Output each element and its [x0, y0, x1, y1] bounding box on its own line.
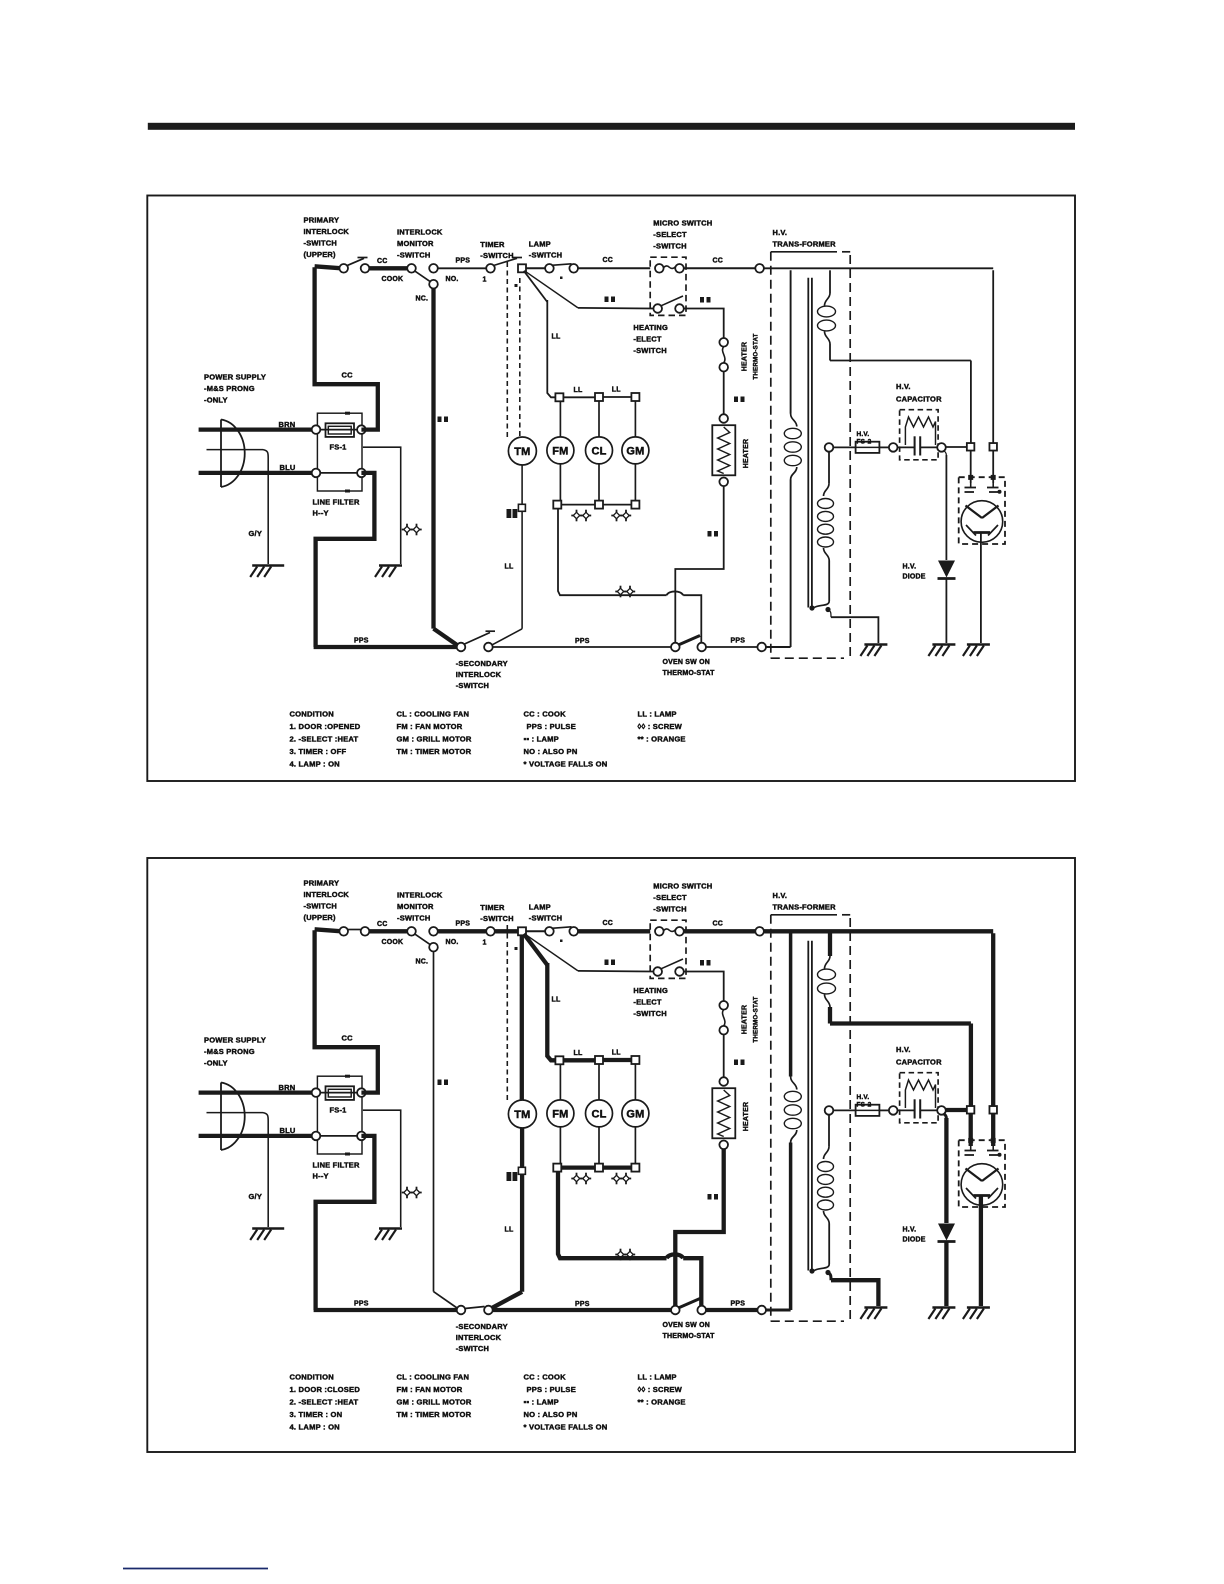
heater thermostat blade	[722, 1010, 724, 1026]
svg-text:GM : GRILL MOTOR: GM : GRILL MOTOR	[397, 1398, 472, 1407]
svg-text:CC: CC	[603, 920, 614, 927]
HV capacitor	[897, 1099, 937, 1118]
label HEATING ELECT SWITCH	[633, 986, 668, 1018]
motor bus node GM	[631, 393, 639, 401]
HV capacitor box	[900, 1073, 939, 1123]
svg-text:CL : COOLING FAN: CL : COOLING FAN	[397, 710, 470, 719]
lamp switch blade	[552, 264, 572, 266]
figure 1 frame	[147, 196, 1075, 782]
svg-text:CC: CC	[342, 1034, 354, 1043]
label G/Y	[249, 1192, 263, 1201]
svg-text:BRN: BRN	[279, 420, 296, 429]
lamp switch contact A	[545, 927, 554, 936]
svg-text:INTERLOCK: INTERLOCK	[397, 891, 443, 900]
node filter neutral-right	[357, 1132, 366, 1141]
oven thermostat contact B	[697, 643, 706, 652]
wire diode	[944, 1114, 947, 1224]
label CC 2	[603, 920, 614, 927]
wire GM bottom	[634, 1127, 636, 1164]
svg-text:1: 1	[483, 940, 487, 947]
label NC.	[416, 959, 429, 966]
svg-text:BRN: BRN	[279, 1083, 296, 1092]
svg-text:NC.: NC.	[416, 959, 429, 966]
svg-text:H.V.: H.V.	[857, 431, 870, 438]
wire monitor to timer switch	[438, 267, 487, 269]
wire main to magnetron FA	[992, 270, 994, 443]
heater bottom node	[719, 478, 728, 487]
wire FM top	[559, 1064, 561, 1100]
HV transformer box	[771, 252, 850, 658]
svg-text:4. LAMP : ON: 4. LAMP : ON	[290, 760, 340, 769]
svg-text:2. -SELECT :HEAT: 2. -SELECT :HEAT	[290, 735, 359, 744]
heater thermostat contact B	[719, 363, 728, 372]
label marks bus 2	[611, 510, 631, 522]
lamp switch contact B	[569, 264, 578, 273]
svg-text:PPS: PPS	[731, 638, 746, 645]
primary interlock blade open	[347, 258, 368, 266]
wire micro to heater branch	[684, 972, 724, 1002]
label MICRO SWITCH SELECT	[653, 882, 712, 914]
svg-text:FS-1: FS-1	[330, 443, 347, 452]
svg-text:NC.: NC.	[416, 296, 429, 303]
wire to HV fuse	[833, 1109, 855, 1111]
interlock monitor common	[407, 264, 416, 273]
legend symbols column	[638, 710, 686, 744]
svg-text:-SECONDARY: -SECONDARY	[456, 659, 508, 668]
wire FM top	[559, 401, 561, 437]
wire TM direct feed	[520, 935, 524, 1100]
secondary interlock blade closed	[465, 1307, 485, 1309]
wire heating element line	[578, 307, 654, 310]
svg-text:LINE FILTER: LINE FILTER	[313, 1161, 360, 1170]
svg-text:* VOLTAGE FALLS ON: * VOLTAGE FALLS ON	[524, 760, 608, 769]
svg-text:INTERLOCK: INTERLOCK	[304, 890, 350, 899]
motor bus node FM	[555, 393, 563, 401]
label marks bus 1	[571, 1173, 591, 1185]
label COOK	[382, 939, 404, 946]
svg-text:-SWITCH: -SWITCH	[304, 902, 337, 911]
magnetron FA node	[989, 1106, 997, 1114]
svg-text:-SECONDARY: -SECONDARY	[456, 1322, 508, 1331]
lamp switch blade	[552, 927, 572, 929]
ground filter	[375, 566, 402, 578]
svg-text:GM: GM	[626, 445, 644, 457]
svg-text:◊◊ : SCREW: ◊◊ : SCREW	[638, 1385, 683, 1394]
label marks hop	[615, 586, 635, 598]
label PPS rail 2	[731, 638, 746, 645]
legend codes column	[524, 1373, 608, 1432]
dot mark	[515, 947, 518, 950]
node filter live-right	[357, 425, 366, 434]
label NO.	[446, 276, 459, 283]
label LL 4	[505, 564, 514, 571]
label NO.	[446, 939, 459, 946]
bus bottom node FM	[553, 1164, 561, 1172]
legend symbols column	[638, 1373, 686, 1407]
label FS-1	[330, 1106, 347, 1115]
svg-text:H--Y: H--Y	[313, 1172, 329, 1181]
wire neutral (BLU) plug to filter	[199, 471, 313, 475]
svg-text:-SWITCH: -SWITCH	[633, 1009, 666, 1018]
footer rule	[123, 1568, 268, 1570]
primary interlock switch contact A	[339, 264, 348, 273]
svg-text:PPS: PPS	[456, 258, 471, 265]
label FS-1	[330, 443, 347, 452]
wire monitor vertical	[434, 951, 459, 1309]
svg-text:INTERLOCK: INTERLOCK	[456, 670, 502, 679]
capacitor out node	[937, 1106, 946, 1115]
svg-text:OVEN SW ON: OVEN SW ON	[663, 1322, 711, 1329]
wire rail thermostat to node	[706, 1308, 758, 1312]
wire interlock to monitor	[369, 929, 408, 933]
label marks monitor	[438, 417, 449, 423]
micro upper contact B	[675, 927, 684, 936]
wire CL top	[598, 1064, 600, 1100]
svg-text:CL: CL	[591, 1108, 606, 1120]
svg-text:PPS : PULSE: PPS : PULSE	[527, 722, 576, 731]
wire CL bottom	[598, 464, 600, 501]
micro lower blade open	[661, 959, 683, 969]
wire main top line	[764, 267, 993, 269]
svg-text:CAPACITOR: CAPACITOR	[896, 395, 942, 404]
label SECONDARY INTERLOCK SWITCH	[456, 659, 508, 690]
oven thermostat contact A	[671, 1306, 680, 1315]
svg-text:* VOLTAGE FALLS ON: * VOLTAGE FALLS ON	[524, 1423, 608, 1432]
svg-text:LL : LAMP: LL : LAMP	[638, 710, 677, 719]
label mark TM node	[507, 1172, 518, 1181]
wire monitor to timer switch	[438, 929, 487, 933]
svg-text:-SWITCH: -SWITCH	[456, 1344, 489, 1353]
label SECONDARY INTERLOCK SWITCH	[456, 1322, 508, 1353]
wire filter chassis tap	[363, 447, 401, 564]
secondary top node	[825, 1106, 834, 1115]
HV capacitor	[897, 436, 937, 455]
label marks heater top	[734, 1060, 745, 1066]
heater thermostat contact A	[719, 1001, 728, 1010]
wire node to lamp switch	[526, 930, 545, 932]
transformer core	[808, 278, 812, 608]
wire main to magnetron FA	[991, 933, 995, 1106]
svg-text:FM: FM	[552, 1108, 568, 1120]
legend condition column	[290, 1373, 361, 1432]
oven thermostat contact B	[697, 1306, 706, 1315]
svg-text:PRIMARY: PRIMARY	[304, 879, 340, 888]
legend condition column	[290, 710, 361, 769]
svg-text:-SELECT: -SELECT	[653, 230, 687, 239]
svg-text:CC: CC	[713, 921, 724, 928]
svg-text:BLU: BLU	[280, 1126, 296, 1135]
label LINE FILTER	[313, 1161, 360, 1181]
heater thermostat contact A	[719, 338, 728, 347]
timer switch closed	[495, 929, 518, 933]
HV fuse	[856, 1105, 880, 1116]
svg-text:-SWITCH: -SWITCH	[633, 346, 666, 355]
svg-text:OVEN SW ON: OVEN SW ON	[663, 659, 711, 666]
svg-text:LL: LL	[505, 1227, 514, 1234]
label CC left	[342, 1034, 354, 1043]
svg-text:▪▪ : LAMP: ▪▪ : LAMP	[524, 735, 559, 744]
power supply cord plug	[207, 420, 269, 488]
secondary interlock blade open	[465, 631, 496, 644]
svg-text:MICRO SWITCH: MICRO SWITCH	[653, 882, 712, 891]
svg-text:H.V.: H.V.	[857, 1094, 870, 1101]
legend motors column	[397, 1373, 472, 1420]
svg-text:CC : COOK: CC : COOK	[524, 1373, 567, 1382]
wire fuse to capacitor	[879, 1109, 889, 1111]
svg-text:-ONLY: -ONLY	[204, 1059, 228, 1068]
svg-text:-M&S PRONG: -M&S PRONG	[204, 384, 255, 393]
label 1	[483, 277, 487, 284]
svg-text:PPS: PPS	[575, 638, 590, 645]
svg-text:THERMO-STAT: THERMO-STAT	[663, 670, 716, 677]
svg-text:H.V.: H.V.	[903, 564, 917, 571]
title bar	[148, 123, 1075, 130]
svg-text:PRIMARY: PRIMARY	[304, 216, 340, 225]
transformer node	[755, 264, 764, 273]
wire micro to heater branch	[684, 309, 724, 339]
svg-text:THERMO-STAT: THERMO-STAT	[753, 333, 760, 379]
svg-text:-SWITCH: -SWITCH	[456, 681, 489, 690]
label marks heating 2	[700, 297, 711, 303]
svg-text:▪▪ : LAMP: ▪▪ : LAMP	[524, 1398, 559, 1407]
label LL 1	[552, 997, 561, 1004]
svg-text:H.V.: H.V.	[896, 1045, 911, 1054]
heater thermostat blade	[722, 347, 724, 363]
magnetron body	[961, 1164, 1003, 1206]
label CC 2	[603, 257, 614, 264]
transformer filament winding	[818, 933, 836, 1023]
noise filter box	[317, 1075, 362, 1156]
svg-text:PPS: PPS	[456, 921, 471, 928]
label HEATER rotated	[743, 439, 750, 468]
wire heating feed diagonal	[525, 271, 579, 308]
svg-text:FM: FM	[552, 445, 568, 457]
svg-text:MONITOR: MONITOR	[397, 239, 434, 248]
label marks heating 2	[700, 960, 711, 966]
transformer primary winding	[784, 933, 801, 1310]
svg-text:TM : TIMER MOTOR: TM : TIMER MOTOR	[397, 747, 472, 756]
motor bus top	[563, 396, 631, 398]
node filter live-left	[312, 1088, 321, 1097]
label marks heater bottom	[708, 1194, 719, 1200]
wire bus to oven thermostat	[558, 509, 701, 643]
magnetron F node	[967, 1106, 975, 1114]
label LL 3	[612, 387, 621, 394]
legend motors column	[397, 710, 472, 757]
svg-text:-ELECT: -ELECT	[633, 335, 662, 344]
svg-text:CONDITION: CONDITION	[290, 710, 334, 719]
secondary top node	[825, 443, 834, 452]
secondary interlock contact B	[484, 1306, 493, 1315]
svg-text:CC: CC	[377, 921, 388, 928]
wire GM bottom	[634, 464, 636, 501]
HV diode D1	[938, 561, 956, 579]
secondary interlock contact B	[484, 643, 493, 652]
ground filter	[375, 1229, 402, 1241]
primary interlock switch contact B	[361, 264, 370, 273]
micro upper blade	[663, 266, 675, 269]
svg-text:BLU: BLU	[280, 463, 296, 472]
label HEATER THERMO-STAT rotated	[742, 996, 760, 1042]
label NC.	[416, 296, 429, 303]
node filter neutral-left	[312, 1132, 321, 1141]
node filter neutral-left	[312, 469, 321, 478]
motor GM	[622, 1100, 649, 1127]
interlock monitor blade	[415, 934, 431, 945]
wire rail to primary leg	[766, 646, 791, 648]
svg-text:-SWITCH: -SWITCH	[397, 251, 430, 260]
wire filament to magnetron	[830, 1024, 971, 1107]
motor bus node GM	[631, 1056, 639, 1064]
wire filter neutral inner	[316, 1135, 361, 1137]
power supply cord plug	[207, 1083, 269, 1151]
svg-text:LL : LAMP: LL : LAMP	[638, 1373, 677, 1382]
wire capacitor to magnetron F	[946, 1108, 967, 1112]
transformer secondary winding	[809, 1115, 833, 1276]
wire live (BRN) plug to filter	[199, 427, 313, 431]
svg-text:H.V.: H.V.	[896, 382, 911, 391]
svg-text:PPS: PPS	[575, 1301, 590, 1308]
wire heater to oven thermostat	[675, 1149, 723, 1306]
legend codes column	[524, 710, 608, 769]
wire heater to oven thermostat	[675, 486, 723, 643]
magnetron filament glyphs	[965, 483, 1002, 494]
svg-text:PPS: PPS	[354, 638, 369, 645]
svg-text:COOK: COOK	[382, 939, 404, 946]
node filter live-left	[312, 425, 321, 434]
lamp switch contact B	[569, 927, 578, 936]
rail node	[757, 643, 766, 652]
heater bottom node	[719, 1141, 728, 1150]
svg-text:HEATER: HEATER	[742, 1005, 749, 1034]
svg-text:-ELECT: -ELECT	[633, 998, 662, 1007]
label INTERLOCK MONITOR SWITCH	[397, 891, 443, 923]
HV diode D1	[938, 1224, 956, 1242]
magnetron terminal dots	[968, 451, 996, 484]
wire secondary to chassis ground	[828, 1273, 878, 1307]
label TIMER SWITCH	[480, 240, 513, 260]
wire filter neutral inner	[316, 472, 361, 474]
label PPS bottom-left	[354, 1301, 369, 1308]
label LL 3	[612, 1050, 621, 1057]
svg-text:FM : FAN MOTOR: FM : FAN MOTOR	[397, 1385, 463, 1394]
wire LL feed	[524, 934, 556, 1061]
dot mark 2	[560, 940, 563, 943]
svg-text:-SWITCH: -SWITCH	[480, 251, 513, 260]
svg-text:1. DOOR :CLOSED: 1. DOOR :CLOSED	[290, 1385, 361, 1394]
label BLU	[280, 1126, 296, 1135]
motor TM	[508, 1100, 536, 1128]
svg-text:GM : GRILL MOTOR: GM : GRILL MOTOR	[397, 735, 472, 744]
micro lower blade open	[661, 296, 683, 306]
svg-text:HEATER: HEATER	[743, 1102, 750, 1131]
wire capacitor to magnetron F	[946, 446, 967, 448]
wire lamp switch to micro switch	[578, 267, 650, 269]
node filter live-right	[357, 1088, 366, 1097]
label HV TRANSFORMER	[773, 891, 837, 912]
svg-text:TIMER: TIMER	[480, 903, 505, 912]
ground diode	[928, 645, 955, 657]
label PPS top	[456, 921, 471, 928]
svg-text:FS-2: FS-2	[857, 439, 872, 446]
ground magnetron	[963, 645, 990, 657]
svg-text:2. -SELECT :HEAT: 2. -SELECT :HEAT	[290, 1398, 359, 1407]
micro switch select box	[650, 920, 686, 978]
svg-text:CC: CC	[377, 258, 388, 265]
label marks bus 2	[611, 1173, 631, 1185]
ground magnetron	[963, 1308, 990, 1320]
svg-text:NO.: NO.	[446, 939, 459, 946]
timer switch blade open	[494, 258, 523, 266]
svg-text:-SWITCH: -SWITCH	[529, 251, 562, 260]
label POWER SUPPLY CORD	[204, 373, 266, 405]
svg-text:CAPACITOR: CAPACITOR	[896, 1058, 942, 1067]
heater top node	[719, 1077, 728, 1086]
svg-text:LL: LL	[505, 564, 514, 571]
interlock monitor blade	[415, 271, 431, 282]
svg-text:INTERLOCK: INTERLOCK	[456, 1333, 502, 1342]
wire node to lamp switch	[526, 267, 545, 269]
bus bottom node GM	[631, 501, 639, 509]
primary interlock switch contact B	[361, 927, 370, 936]
label OVEN THERMO-STAT	[663, 1322, 716, 1340]
interlock monitor lower contact	[429, 943, 438, 952]
label PRIMARY INTERLOCK SWITCH	[304, 879, 350, 923]
label BRN	[279, 420, 296, 429]
magnetron body	[961, 501, 1003, 543]
svg-text:3. TIMER : ON: 3. TIMER : ON	[290, 1410, 343, 1419]
label BRN	[279, 1083, 296, 1092]
heater element	[712, 425, 735, 475]
svg-text:PPS: PPS	[354, 1301, 369, 1308]
svg-text:-SWITCH: -SWITCH	[529, 914, 562, 923]
motor TM	[508, 437, 536, 465]
wire fuse to capacitor	[879, 446, 889, 448]
bleeder resistor	[905, 417, 935, 445]
oven thermostat contact A	[671, 643, 680, 652]
svg-text:LL: LL	[574, 1050, 583, 1057]
svg-text:** : ORANGE: ** : ORANGE	[638, 1398, 686, 1407]
label PPS rail 2	[731, 1301, 746, 1308]
timer switch contact	[486, 264, 495, 273]
wire GM top	[634, 401, 636, 437]
timer linkage dashed	[506, 925, 508, 1100]
label LAMP SWITCH	[529, 903, 562, 923]
capacitor out node	[937, 443, 946, 452]
timer linkage dashed 1	[506, 262, 508, 437]
wire CC fuse to primary interlock	[315, 266, 378, 429]
svg-text:TRANS-FORMER: TRANS-FORMER	[773, 240, 837, 249]
label TIMER SWITCH	[480, 903, 513, 923]
svg-text:** : ORANGE: ** : ORANGE	[638, 735, 686, 744]
motor bus node CL	[595, 1056, 603, 1064]
label CC 3	[713, 258, 724, 265]
svg-text:NO : ALSO PN: NO : ALSO PN	[524, 1410, 578, 1419]
svg-text:CONDITION: CONDITION	[290, 1373, 334, 1382]
label COOK	[382, 276, 404, 283]
bus bottom node CL	[595, 1164, 603, 1172]
svg-text:COOK: COOK	[382, 276, 404, 283]
svg-text:DIODE: DIODE	[903, 574, 926, 581]
label HEATER rotated	[743, 1102, 750, 1131]
primary interlock switch contact A	[339, 927, 348, 936]
svg-text:NO.: NO.	[446, 276, 459, 283]
label CC left	[342, 371, 354, 380]
label BLU	[280, 463, 296, 472]
svg-text:LL: LL	[612, 1050, 621, 1057]
wire GM top	[634, 1064, 636, 1100]
wire heating element line	[578, 970, 654, 973]
